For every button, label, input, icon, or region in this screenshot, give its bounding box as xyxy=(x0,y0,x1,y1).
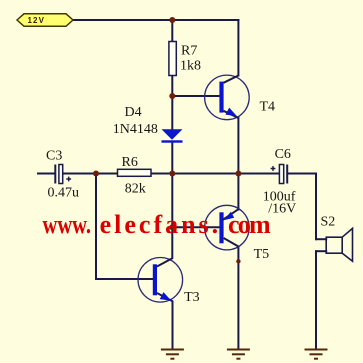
svg-text:S2: S2 xyxy=(321,215,336,230)
wire T3 base xyxy=(96,278,153,280)
transistor T5 xyxy=(205,205,250,250)
wire T5 emitter vertical xyxy=(237,174,239,210)
svg-text:1N4148: 1N4148 xyxy=(113,122,158,137)
wire C3 to node xyxy=(63,173,96,175)
wire D4 cathode lead xyxy=(171,142,173,174)
transistor T4 xyxy=(205,75,250,120)
junction node C3 / R6 / T3 base xyxy=(93,171,99,177)
svg-text:C6: C6 xyxy=(275,147,291,162)
svg-text:T5: T5 xyxy=(254,247,270,262)
svg-text:www.elecfans.com: www.elecfans.com xyxy=(43,210,271,239)
junction node R7 / D4 / T4 base xyxy=(169,93,175,99)
wire C3 left stub xyxy=(38,173,55,175)
transistor T3 xyxy=(138,258,183,303)
wire T5 collector vertical xyxy=(237,247,239,349)
junction node D4 / R6 / signal xyxy=(169,171,175,177)
wire speaker bottom xyxy=(315,251,317,348)
wire R6 left lead xyxy=(96,173,118,175)
capacitor C3 xyxy=(55,165,71,184)
wire T5 base xyxy=(172,226,219,228)
svg-text:D4: D4 xyxy=(125,105,142,120)
wire C6 down to speaker xyxy=(315,174,317,240)
wire T4 base xyxy=(172,95,219,97)
resistor R7 xyxy=(169,42,176,76)
ground under T3 xyxy=(161,350,184,359)
ground under speaker xyxy=(305,350,328,359)
svg-text:R6: R6 xyxy=(122,155,138,170)
junction node T5 base xyxy=(169,224,175,230)
wire speaker bottom pin xyxy=(316,250,326,252)
wire signal mid xyxy=(172,173,238,175)
diode D4 xyxy=(162,129,183,142)
wire D4 anode lead xyxy=(171,96,173,130)
svg-text:T3: T3 xyxy=(184,290,200,305)
wire R7 top lead xyxy=(171,20,173,42)
resistor R6 xyxy=(118,169,152,176)
junction node T4 emitter / T5 emitter / C6 xyxy=(235,171,241,177)
wire C6 right xyxy=(288,173,316,175)
wire T4 collector vertical xyxy=(237,20,239,76)
svg-text:/16V: /16V xyxy=(268,202,296,217)
wire node x172 vertical xyxy=(171,174,173,259)
svg-text:1k8: 1k8 xyxy=(180,59,201,74)
ground under T5 xyxy=(227,350,250,359)
power flag 12V xyxy=(17,14,73,26)
wire top rail 12V xyxy=(73,19,238,21)
wire R6 right lead xyxy=(151,173,172,175)
wire T4 emitter vertical xyxy=(237,118,239,174)
svg-text:12V: 12V xyxy=(28,16,46,25)
svg-text:T4: T4 xyxy=(260,100,276,115)
speaker S2 xyxy=(326,228,352,261)
wire R7 bottom lead xyxy=(171,76,173,97)
svg-text:C3: C3 xyxy=(46,148,62,163)
wire T3 emitter vertical xyxy=(172,302,174,349)
svg-text:82k: 82k xyxy=(125,182,146,197)
wire speaker top pin xyxy=(316,238,326,240)
svg-text:R7: R7 xyxy=(181,44,197,59)
wire signal to C6 xyxy=(238,173,279,175)
wire node to T3 base vertical xyxy=(95,174,97,280)
junction node top rail / R7 xyxy=(169,17,175,23)
pin dot T5 collector xyxy=(236,259,240,263)
capacitor C6 xyxy=(271,165,288,184)
svg-text:0.47u: 0.47u xyxy=(48,186,80,201)
